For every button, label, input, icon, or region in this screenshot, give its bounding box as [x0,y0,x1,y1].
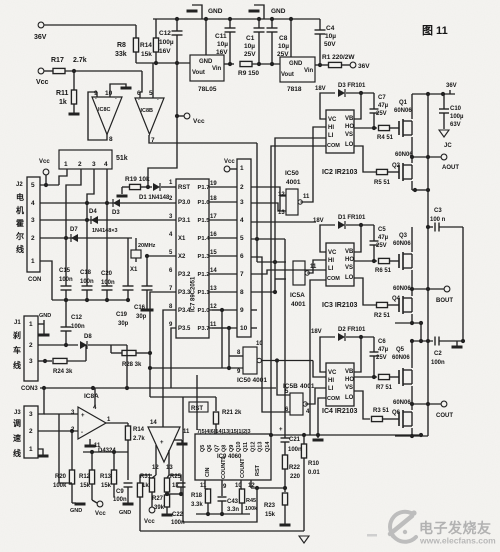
resistor R23 15k [282,493,287,505]
wire IC9 bottom gnd row [196,513,250,515]
svg-text:3: 3 [31,217,35,224]
svg-text:www.elecfans.com: www.elecfans.com [419,536,496,546]
svg-text:Vout: Vout [281,72,294,78]
svg-text:Vcc: Vcc [224,159,235,165]
svg-text:速: 速 [13,433,21,443]
svg-text:P1.5: P1.5 [198,218,211,224]
svg-text:R14: R14 [133,427,145,433]
svg-text:47µ: 47µ [378,235,389,241]
svg-text:C8: C8 [279,35,288,42]
svg-text:C12: C12 [71,315,83,321]
svg-text:P1.2: P1.2 [198,272,210,278]
wire Vcc drop staircase to R19 node [148,116,177,187]
svg-text:3: 3 [240,199,244,206]
svg-text:14: 14 [210,268,217,274]
wire bundle vertical left [256,143,258,262]
wire D8 drop to long row [126,345,128,388]
svg-text:COUT: COUT [436,413,453,419]
svg-text:100n: 100n [80,279,94,285]
wire J3 pin3 up to rail [38,388,44,414]
wire feedback rect [59,414,72,483]
svg-text:C11: C11 [215,33,227,40]
terminal AOUT [441,154,447,160]
svg-text:+: + [81,413,85,419]
svg-text:4: 4 [104,161,108,168]
wire Q1 drain to 36V row [411,94,413,119]
svg-text:36V: 36V [446,83,457,89]
wire Q6 drain up to phase node [411,404,413,410]
wire J1 pin3 row R24 [38,360,52,362]
earth symbol under C10 [439,130,449,137]
svg-text:LI: LI [328,266,334,272]
wire row 397 to section [150,396,183,398]
connector J3 speed line [24,406,38,458]
svg-text:R18: R18 [191,493,203,499]
svg-text:60N06: 60N06 [395,152,413,158]
op-amp IC8A D4324 [78,407,106,439]
terminal Vcc under R12 [92,500,97,503]
resistor R4 51 [379,125,390,130]
svg-text:Vin: Vin [212,66,222,72]
wire IC8C input stubs [96,92,98,97]
terminal Vcc under R31 [151,505,153,507]
svg-text:P3.4: P3.4 [178,308,191,314]
svg-text:100n: 100n [288,447,302,453]
wire IC8A pin11 gnd [89,439,91,445]
wire IC4 LO row to R3 [354,391,370,419]
terminal Vcc left [38,68,44,74]
svg-text:IC50 4001: IC50 4001 [237,377,267,384]
diode D8 [80,341,87,349]
capacitor C8 10u 25V [271,19,273,28]
wire header pin10 row stub [251,327,257,329]
svg-text:100n: 100n [101,280,115,286]
wire Q1 source to phase A node [411,137,413,157]
svg-text:6: 6 [240,253,244,260]
diode D3b FR101 phase A bootstrap [338,89,345,97]
svg-text:R10: R10 [308,461,320,467]
svg-text:J2: J2 [16,182,23,188]
wire 7818 Vin row [315,64,329,66]
wire IC8B output pin7 long row [149,135,257,143]
svg-text:18V: 18V [311,329,322,335]
MCU IC7 89C2051 [176,179,209,338]
wire under opamp row [83,451,128,453]
svg-text:R6 51: R6 51 [375,268,392,274]
wire Q6 source to low rail C [411,428,413,436]
svg-text:VB: VB [345,369,354,375]
wire phase C row to COUT [412,403,441,405]
svg-text:D4: D4 [89,209,97,215]
transistor Q3 60N06 [398,254,400,268]
svg-text:Vcc: Vcc [144,519,155,525]
svg-text:100n: 100n [113,497,127,503]
wire J1 pin2 row with D8 [38,344,78,346]
svg-text:13: 13 [278,210,285,216]
wire header pin9 row stub [251,309,257,311]
transistor Q2 60N06 [398,165,400,179]
svg-text:C5: C5 [378,227,386,233]
diode D2 FR101 phase C bootstrap [338,333,345,341]
svg-text:R24 3k: R24 3k [53,369,73,375]
svg-text:50V: 50V [324,41,336,48]
svg-text:10: 10 [256,341,263,347]
wire right rail vertical [427,94,429,436]
svg-text:2.7k: 2.7k [133,436,145,442]
svg-text:HO: HO [345,257,354,263]
svg-text:Vcc: Vcc [39,159,50,165]
svg-text:19: 19 [210,181,217,187]
unlabeled resistor bottom left [137,483,142,497]
svg-text:1k: 1k [172,483,179,489]
counter IC9 4060 [195,434,271,480]
svg-text:C12: C12 [159,30,171,37]
svg-text:线: 线 [16,244,24,254]
svg-text:C22: C22 [172,512,184,518]
svg-text:15k: 15k [80,483,91,489]
svg-text:图 11: 图 11 [422,24,448,37]
svg-text:100n: 100n [71,324,85,330]
svg-text:3: 3 [92,161,96,168]
svg-text:18: 18 [210,196,217,202]
wire J2 pin5 row [40,184,59,186]
wire C3 right drop [462,227,464,341]
svg-text:CON: CON [28,277,41,283]
svg-text:LO: LO [345,395,354,401]
ground under C9 [123,503,134,506]
svg-text:R28 3k: R28 3k [122,362,142,368]
capacitor C4 10u 50V [319,19,321,30]
wire IC2 VC loop 18V [320,93,335,119]
wire IC50 input tie [280,196,286,211]
svg-text:RST: RST [255,464,261,476]
wire bottom bus [140,530,304,532]
svg-text:R13: R13 [100,474,112,480]
wire network pin2 drop [66,169,81,286]
resistor R6 51 [379,258,390,263]
svg-text:C3: C3 [434,208,442,214]
ground symbol top 2 [254,5,264,19]
svg-text:VB: VB [345,249,354,255]
svg-text:1: 1 [29,321,33,328]
wire IC8A V+ pin4 up to rail [94,388,96,407]
wire phase A row to AOUT [412,156,441,158]
wire gnd bus under C15 C18 C20 [52,299,128,301]
svg-text:R11: R11 [56,90,69,97]
transistor Q5 60N06 [398,370,400,384]
svg-text:C6: C6 [378,339,386,345]
svg-text:IC2 IR2103: IC2 IR2103 [322,169,358,176]
svg-text:电子发烧友: 电子发烧友 [419,520,492,536]
wire IC4 VB to bootstrap node [354,337,361,372]
driver IC4 IR2103 [326,363,354,406]
wire IC3 HO row [354,260,377,262]
svg-text:-: - [81,430,83,436]
svg-text:8: 8 [240,289,244,296]
terminal Vcc above J2 [43,169,49,175]
svg-text:11: 11 [200,483,207,489]
svg-text:R17: R17 [51,57,64,64]
svg-text:25V: 25V [244,51,256,58]
wire header pin2 row to IC50 input [251,187,286,195]
resistor R12 15k [91,452,93,470]
svg-text:30p: 30p [136,314,147,320]
svg-text:P3.1: P3.1 [178,218,191,224]
svg-text:+: + [160,440,164,446]
wire IC50 output pin11 up to IC2 HI [301,127,327,202]
svg-text:11: 11 [183,429,190,435]
wire IC4 VC loop 18V [320,337,335,372]
svg-text:VS: VS [345,132,353,138]
svg-text:7818: 7818 [287,86,302,93]
resistor R45 100k [239,489,244,503]
svg-text:4001: 4001 [291,301,306,308]
svg-text:VC: VC [328,250,337,256]
svg-text:线: 线 [13,448,21,458]
svg-text:AOUT: AOUT [442,165,459,171]
crystal X1 20MHz [135,238,137,250]
capacitor C5 47u 25V [373,225,375,241]
svg-text:16: 16 [210,232,217,238]
svg-text:Vin: Vin [304,68,314,74]
resistor network 51k [59,150,112,169]
resistor network header 10-pin [237,159,251,337]
svg-text:2: 2 [31,235,35,242]
svg-text:GND: GND [271,8,286,15]
svg-text:D8: D8 [84,334,92,340]
svg-text:C9: C9 [116,489,124,495]
svg-text:3: 3 [29,358,33,365]
wire J2 pin2 row X1 [40,237,132,239]
node junction R17/R11 [72,69,76,73]
svg-text:Q9: Q9 [229,445,235,452]
wire J1 pin1 to gnd [38,323,44,325]
svg-text:2: 2 [78,161,82,168]
wire Vcc row corner to IC8B pin6 [140,71,142,92]
NOR gate IC50b 4001 (lower) [243,347,257,374]
svg-text:C20: C20 [101,271,113,277]
svg-text:2: 2 [240,184,244,191]
svg-text:刹: 刹 [13,330,21,340]
wire Vcc row [44,70,53,72]
svg-text:GND: GND [199,59,213,65]
wire header pin3 row [251,203,286,211]
svg-text:Q11: Q11 [243,442,249,452]
svg-text:1N4148×3: 1N4148×3 [92,228,118,234]
svg-text:P3.2: P3.2 [178,272,191,278]
resistor R14 15k [153,38,158,52]
svg-text:IC5A: IC5A [290,292,305,299]
resistor R20 100k [71,431,73,470]
resistor R17 2.7k [53,68,65,73]
wire 78L05 GND pin to top bus [205,19,207,55]
diode D1 1N4148 [153,183,160,191]
wire Q4 source to low rail B [411,314,413,323]
svg-text:D1 FR101: D1 FR101 [338,215,366,221]
svg-text:5: 5 [240,235,244,242]
svg-text:R9 150: R9 150 [238,70,259,77]
svg-text:C21: C21 [289,437,301,443]
svg-text:COM: COM [327,396,340,402]
svg-text:IC8C: IC8C [98,107,111,113]
svg-text:Q1: Q1 [399,100,408,106]
svg-text:R21 2k: R21 2k [222,410,242,416]
svg-text:10µ: 10µ [325,33,336,40]
terminal Vcc mid [177,115,184,117]
svg-text:R23: R23 [264,503,276,509]
wire IC3 VC loop 18V [320,225,335,252]
wire vertical Vcc drop from top bus [176,63,178,116]
resistor R21 2k [215,397,217,411]
svg-text:X2: X2 [178,254,186,260]
earth symbol bottom [299,536,309,543]
svg-text:尔: 尔 [15,231,24,241]
svg-text:LI: LI [328,386,334,392]
svg-text:HI: HI [328,378,334,384]
wire header pin7 row drop [251,270,326,274]
node R19/D1 [141,186,152,188]
wire J2 pin4 row P3.0 [40,202,176,204]
svg-text:C19: C19 [116,312,128,318]
svg-text:Q6: Q6 [392,410,401,416]
svg-text:R7 51: R7 51 [376,385,393,391]
svg-text:Q10: Q10 [236,442,242,452]
op-amp IC8D [148,427,180,462]
svg-text:VC: VC [328,370,337,376]
svg-text:10µ: 10µ [217,41,228,48]
capacitor C20 100n [102,285,113,287]
wire IC50b input 8 [229,355,243,357]
svg-text:JC: JC [444,143,452,149]
svg-text:17: 17 [210,214,217,220]
svg-text:0.01: 0.01 [308,470,320,476]
wire header pin8 row drop [251,291,275,293]
svg-text:COM: COM [327,143,340,149]
svg-text:25V: 25V [376,243,387,249]
svg-text:R20: R20 [55,474,67,480]
capacitor C2 100n [434,337,436,346]
svg-text:R12: R12 [79,474,91,480]
svg-text:C18: C18 [80,270,92,276]
svg-text:10µ: 10µ [244,43,255,50]
svg-text:IC8B: IC8B [141,108,154,114]
svg-text:R1 220/2W: R1 220/2W [322,54,355,61]
wire X2 row to crystal [147,255,176,257]
svg-text:P1.6: P1.6 [198,200,211,206]
svg-text:RST: RST [178,185,190,191]
svg-text:R45: R45 [246,498,256,504]
svg-text:7|5|4|6|14|13|15|1|2|3: 7|5|4|6|14|13|15|1|2|3 [197,429,251,435]
resistor R1 220/2W [329,62,342,67]
capacitor C1 10u 25V [258,19,260,28]
svg-text:X1: X1 [178,236,186,242]
svg-text:15: 15 [210,250,217,256]
wire IC5A output to IC3 HI [307,260,326,273]
diode D1b FR101 phase B bootstrap [338,221,345,229]
wire R24 up to D8 row [85,345,87,361]
svg-text:X1: X1 [130,267,138,273]
svg-text:IC4 IR2103: IC4 IR2103 [322,408,358,415]
ground bar under R23 [280,524,291,527]
capacitor C21 100n [284,412,286,438]
svg-text:100n: 100n [431,360,445,366]
svg-text:25V: 25V [376,111,387,117]
svg-text:4001: 4001 [286,179,301,186]
wire network pin3 drop [87,169,94,286]
ground bar on COM row [317,435,319,438]
wire IC2 LI feed vertical [275,138,326,292]
svg-text:霍: 霍 [16,218,24,228]
connector J2 motor hall lines [27,177,40,272]
capacitor C16 30p [146,256,148,286]
regulator U-78L05 [190,55,224,81]
svg-text:IC3 IR2103: IC3 IR2103 [322,302,358,309]
connector J1 brake line [24,316,38,381]
svg-text:CON3: CON3 [21,386,38,392]
resistor R7 51 [379,374,390,379]
ground bar left of R19 [121,187,123,194]
svg-text:100µ: 100µ [159,39,174,46]
capacitor C43 3.3n [221,492,223,496]
svg-text:4: 4 [31,200,35,207]
svg-text:R14: R14 [140,42,152,49]
wire IC3 COM drop [310,280,326,435]
svg-text:5: 5 [31,182,35,189]
svg-text:LO: LO [345,275,354,281]
svg-text:36V: 36V [34,34,47,41]
svg-text:C1: C1 [246,35,255,42]
svg-text:GND: GND [119,510,131,516]
wire Q5 source to phase C node [411,386,413,404]
wire IC3 VB to bootstrap node [354,225,361,252]
wire IC4 HO row [354,376,377,378]
svg-text:4: 4 [240,217,244,224]
svg-text:100n: 100n [59,277,73,283]
wire Q2 drain up to phase node [411,157,413,163]
wire bundle vertical COM return [271,146,326,435]
svg-text:39k: 39k [154,505,165,511]
svg-text:R2 51: R2 51 [374,313,391,319]
wire branch to IC5B pin5 [277,361,290,396]
svg-text:1k: 1k [59,99,67,106]
terminal Vcc header pin1 [224,166,230,172]
svg-text:2: 2 [29,428,33,435]
ground under R20 [75,503,86,506]
svg-text:2.7k: 2.7k [73,57,87,64]
svg-text:C15: C15 [59,268,71,274]
resistor R14b 2.7k [127,423,129,426]
svg-text:11: 11 [303,194,310,200]
svg-text:100 n: 100 n [430,217,446,223]
svg-text:Q6: Q6 [207,445,213,452]
svg-text:33k: 33k [115,51,127,58]
svg-text:Vcc: Vcc [36,79,49,86]
svg-text:Q13: Q13 [258,442,264,452]
wire mid row 368 [150,367,243,369]
wire Q4 drain up to phase node [411,289,413,296]
svg-text:220: 220 [290,474,301,480]
svg-text:1: 1 [29,446,33,453]
svg-text:LI: LI [328,133,334,139]
svg-text:63V: 63V [450,122,461,128]
wire phase B row to BOUT [412,288,444,290]
svg-text:D2 FR101: D2 FR101 [338,327,366,333]
ground symbol top 1 [192,5,202,19]
wire Q5 drain up [411,341,413,368]
svg-text:Q4: Q4 [392,296,401,302]
wire IC8C feedback loop [88,92,107,140]
terminal 36V right of R1 [350,62,356,68]
